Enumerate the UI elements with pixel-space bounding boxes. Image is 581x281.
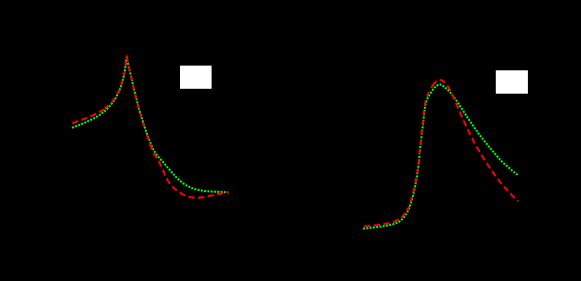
right plot: red dashed curve, left tail segment	[364, 211, 406, 226]
right plot: red dashed curve, steep rise segment over green	[407, 86, 433, 211]
right plot: red dashed curve, peak and right descent segment	[433, 80, 519, 201]
right plot: green dotted curve	[363, 85, 519, 229]
left plot: legend box	[180, 66, 212, 89]
right plot: legend box	[496, 70, 528, 93]
left plot: red dashed curve, peak segment over green	[105, 57, 147, 133]
left plot: green dotted curve	[72, 57, 229, 192]
left plot: red dashed curve, left tail segment	[72, 109, 104, 123]
left plot: red dashed curve, right dip segment	[147, 135, 229, 198]
